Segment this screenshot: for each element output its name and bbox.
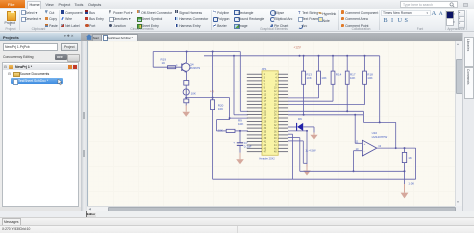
wire x395 down to output xyxy=(395,122,397,148)
svg-text:11: 11 xyxy=(356,139,359,143)
resistor R20 xyxy=(211,100,215,110)
svg-text:2N3679: 2N3679 xyxy=(190,66,201,70)
junction R20 top xyxy=(212,97,214,99)
junction diode net xyxy=(306,130,308,132)
wire resistor bottom down xyxy=(303,84,305,115)
svg-text:LM1407PW: LM1407PW xyxy=(372,135,388,139)
svg-text:1K: 1K xyxy=(162,61,166,65)
ground GND1 under Q4 chain xyxy=(182,105,190,117)
svg-text:0.1uF: 0.1uF xyxy=(244,145,252,149)
wire x240 down to U3 xyxy=(239,52,241,112)
wire vertical x216 xyxy=(216,120,218,131)
svg-text:1L-4.5W: 1L-4.5W xyxy=(305,149,316,153)
wire U3 to R bank col5 xyxy=(288,104,365,106)
svg-text:10K: 10K xyxy=(191,91,196,95)
wire top-left horizontal xyxy=(153,51,240,53)
wire R3 to U3 xyxy=(235,130,248,132)
wire U3 pin row20 xyxy=(288,137,300,139)
wire R6 bottom down xyxy=(404,163,406,184)
svg-text:R14: R14 xyxy=(336,72,342,76)
wire xyxy=(332,56,334,71)
svg-text:+5: +5 xyxy=(210,89,214,93)
doc tab bar xyxy=(81,33,474,41)
wire D6 anode right xyxy=(303,126,314,128)
junction rail resistor R14 xyxy=(332,55,334,57)
junction rail resistor 10K xyxy=(318,55,320,57)
resistor R21 (emitter chain) xyxy=(184,81,189,86)
junction R6-feedback xyxy=(404,170,406,172)
op-amp U10 xyxy=(362,140,376,156)
svg-text:10K: 10K xyxy=(218,128,223,132)
junction feedback xyxy=(353,170,355,172)
wire xyxy=(303,56,305,71)
wire xyxy=(212,88,214,100)
wire x299 to feedback xyxy=(299,138,301,172)
resistor R14 vertical bank xyxy=(331,71,335,84)
svg-text:-: - xyxy=(364,150,365,154)
junction x395-output xyxy=(395,147,397,149)
svg-text:10K: 10K xyxy=(350,76,355,80)
power ground arrow below R6 (salmon) xyxy=(401,184,409,198)
junction rail-end xyxy=(379,121,381,123)
wire R20 bottom to bottom rail xyxy=(212,110,214,180)
ground GND2 under C7 xyxy=(236,153,244,165)
wire bottom rail xyxy=(213,178,416,180)
trimmer RV1 10K xyxy=(183,89,189,95)
wire U3 to D6 cathode xyxy=(288,126,297,128)
svg-text:+: + xyxy=(233,141,235,145)
wire U3 pin row19 xyxy=(288,133,293,135)
wire U3 to R bank col3 xyxy=(288,100,333,102)
resistor R 10K vertical bank xyxy=(317,71,321,84)
resistor R18 10K vertical bank xyxy=(363,71,367,84)
wire vertical x229 xyxy=(229,98,231,120)
wire Q4 collector to rail xyxy=(186,52,188,63)
wire xyxy=(185,85,187,89)
wire tap to right xyxy=(186,97,229,99)
svg-text:10K: 10K xyxy=(321,76,326,80)
svg-text:10K: 10K xyxy=(238,122,243,126)
wire xyxy=(239,131,241,143)
wire resistor bottom down xyxy=(364,84,366,104)
wire xyxy=(313,127,315,133)
wire xyxy=(346,56,348,71)
wire resistor bottom down xyxy=(346,84,348,111)
power port pull-down (salmon) near D6 xyxy=(310,133,317,140)
svg-text:13: 13 xyxy=(378,144,381,148)
wire U3 to R bank col2 xyxy=(288,97,319,99)
wire xyxy=(318,56,320,71)
left panel xyxy=(0,33,81,211)
junction rail-x234 xyxy=(233,55,235,57)
wire +12V rail xyxy=(204,55,380,57)
wire xyxy=(217,130,227,132)
svg-text:D6: D6 xyxy=(298,117,302,121)
junction output-R6 xyxy=(404,147,406,149)
svg-text:1.0K: 1.0K xyxy=(408,181,414,185)
connector U3 Header 20X2 xyxy=(247,67,288,161)
wire to U3 pin xyxy=(230,117,248,119)
wire feedback long horizontal xyxy=(300,170,405,172)
wire loop right vertical xyxy=(415,148,417,179)
transistor Q4 xyxy=(182,62,190,72)
junction rail resistor R13 xyxy=(303,55,305,57)
wire to op-amp +input xyxy=(354,115,356,144)
ribbon background xyxy=(0,9,474,32)
wire xyxy=(363,121,395,123)
wire xyxy=(185,95,187,99)
search box xyxy=(400,1,458,8)
junction x229-y118 xyxy=(229,117,231,119)
svg-text:JP1: JP1 xyxy=(262,67,267,71)
junction collector-rail xyxy=(186,51,188,53)
junction emitter chain tap xyxy=(185,97,187,99)
wire xyxy=(404,148,406,152)
resistor R13 10K vertical bank xyxy=(302,71,306,84)
junction col4 bottom xyxy=(346,110,348,112)
svg-text:+: + xyxy=(364,142,366,146)
top tab row xyxy=(0,0,474,10)
wire left box vertical xyxy=(152,52,154,68)
svg-text:10K: 10K xyxy=(306,76,311,80)
junction rail resistor R17 xyxy=(346,55,348,57)
wire x234 down to U3 xyxy=(233,56,235,115)
wire op-amp output xyxy=(377,147,416,149)
svg-text:+12V: +12V xyxy=(293,45,301,49)
resistor R17 10K vertical bank xyxy=(345,71,349,84)
svg-text:Header 20X2: Header 20X2 xyxy=(259,156,275,160)
svg-text:10K: 10K xyxy=(367,76,372,80)
junction col1 bottom xyxy=(303,114,305,116)
wire +input xyxy=(355,142,362,144)
wire resistor bottom down xyxy=(318,84,320,98)
wire rail end down xyxy=(379,56,381,123)
wire -input xyxy=(354,150,363,152)
svg-text:1K: 1K xyxy=(408,156,412,160)
wire base of Q4 xyxy=(153,66,181,68)
junction C7 top xyxy=(239,130,241,132)
wire xyxy=(364,56,366,71)
wire to U3 pin xyxy=(234,114,248,116)
wire Q4 emitter down xyxy=(186,72,188,81)
junction rail resistor R18 xyxy=(364,55,366,57)
wire C7 to ground xyxy=(239,145,241,152)
resistor R22 (emitter chain lower) xyxy=(184,99,189,103)
wire resistor bottom down xyxy=(332,84,334,101)
junction op-amp feed xyxy=(354,114,356,116)
wire xyxy=(302,141,304,163)
junction +5 rail xyxy=(212,51,214,53)
wire to ground xyxy=(185,103,187,106)
wire U3 pin row21 xyxy=(288,140,303,142)
resistor R19 xyxy=(168,66,176,69)
ground GND3 below diode cluster xyxy=(303,164,311,176)
svg-text:1: 1 xyxy=(176,64,178,67)
wire join xyxy=(303,162,307,164)
junction +12V attach xyxy=(299,55,301,57)
wire U3 pin row18 xyxy=(288,130,307,132)
wire -input feedback vertical xyxy=(353,151,355,172)
wire U3 row111 to right xyxy=(288,110,363,112)
wire U3 row115 to right xyxy=(288,114,363,116)
wire to U3 pin xyxy=(240,110,248,112)
wire x292 to bottom rail xyxy=(292,134,294,179)
wire down to ground xyxy=(306,131,308,167)
wire xyxy=(217,119,230,121)
svg-text:10K: 10K xyxy=(218,107,223,111)
wire corner join xyxy=(362,111,364,122)
wire +5 down xyxy=(212,52,214,89)
diode D6 xyxy=(297,123,304,131)
